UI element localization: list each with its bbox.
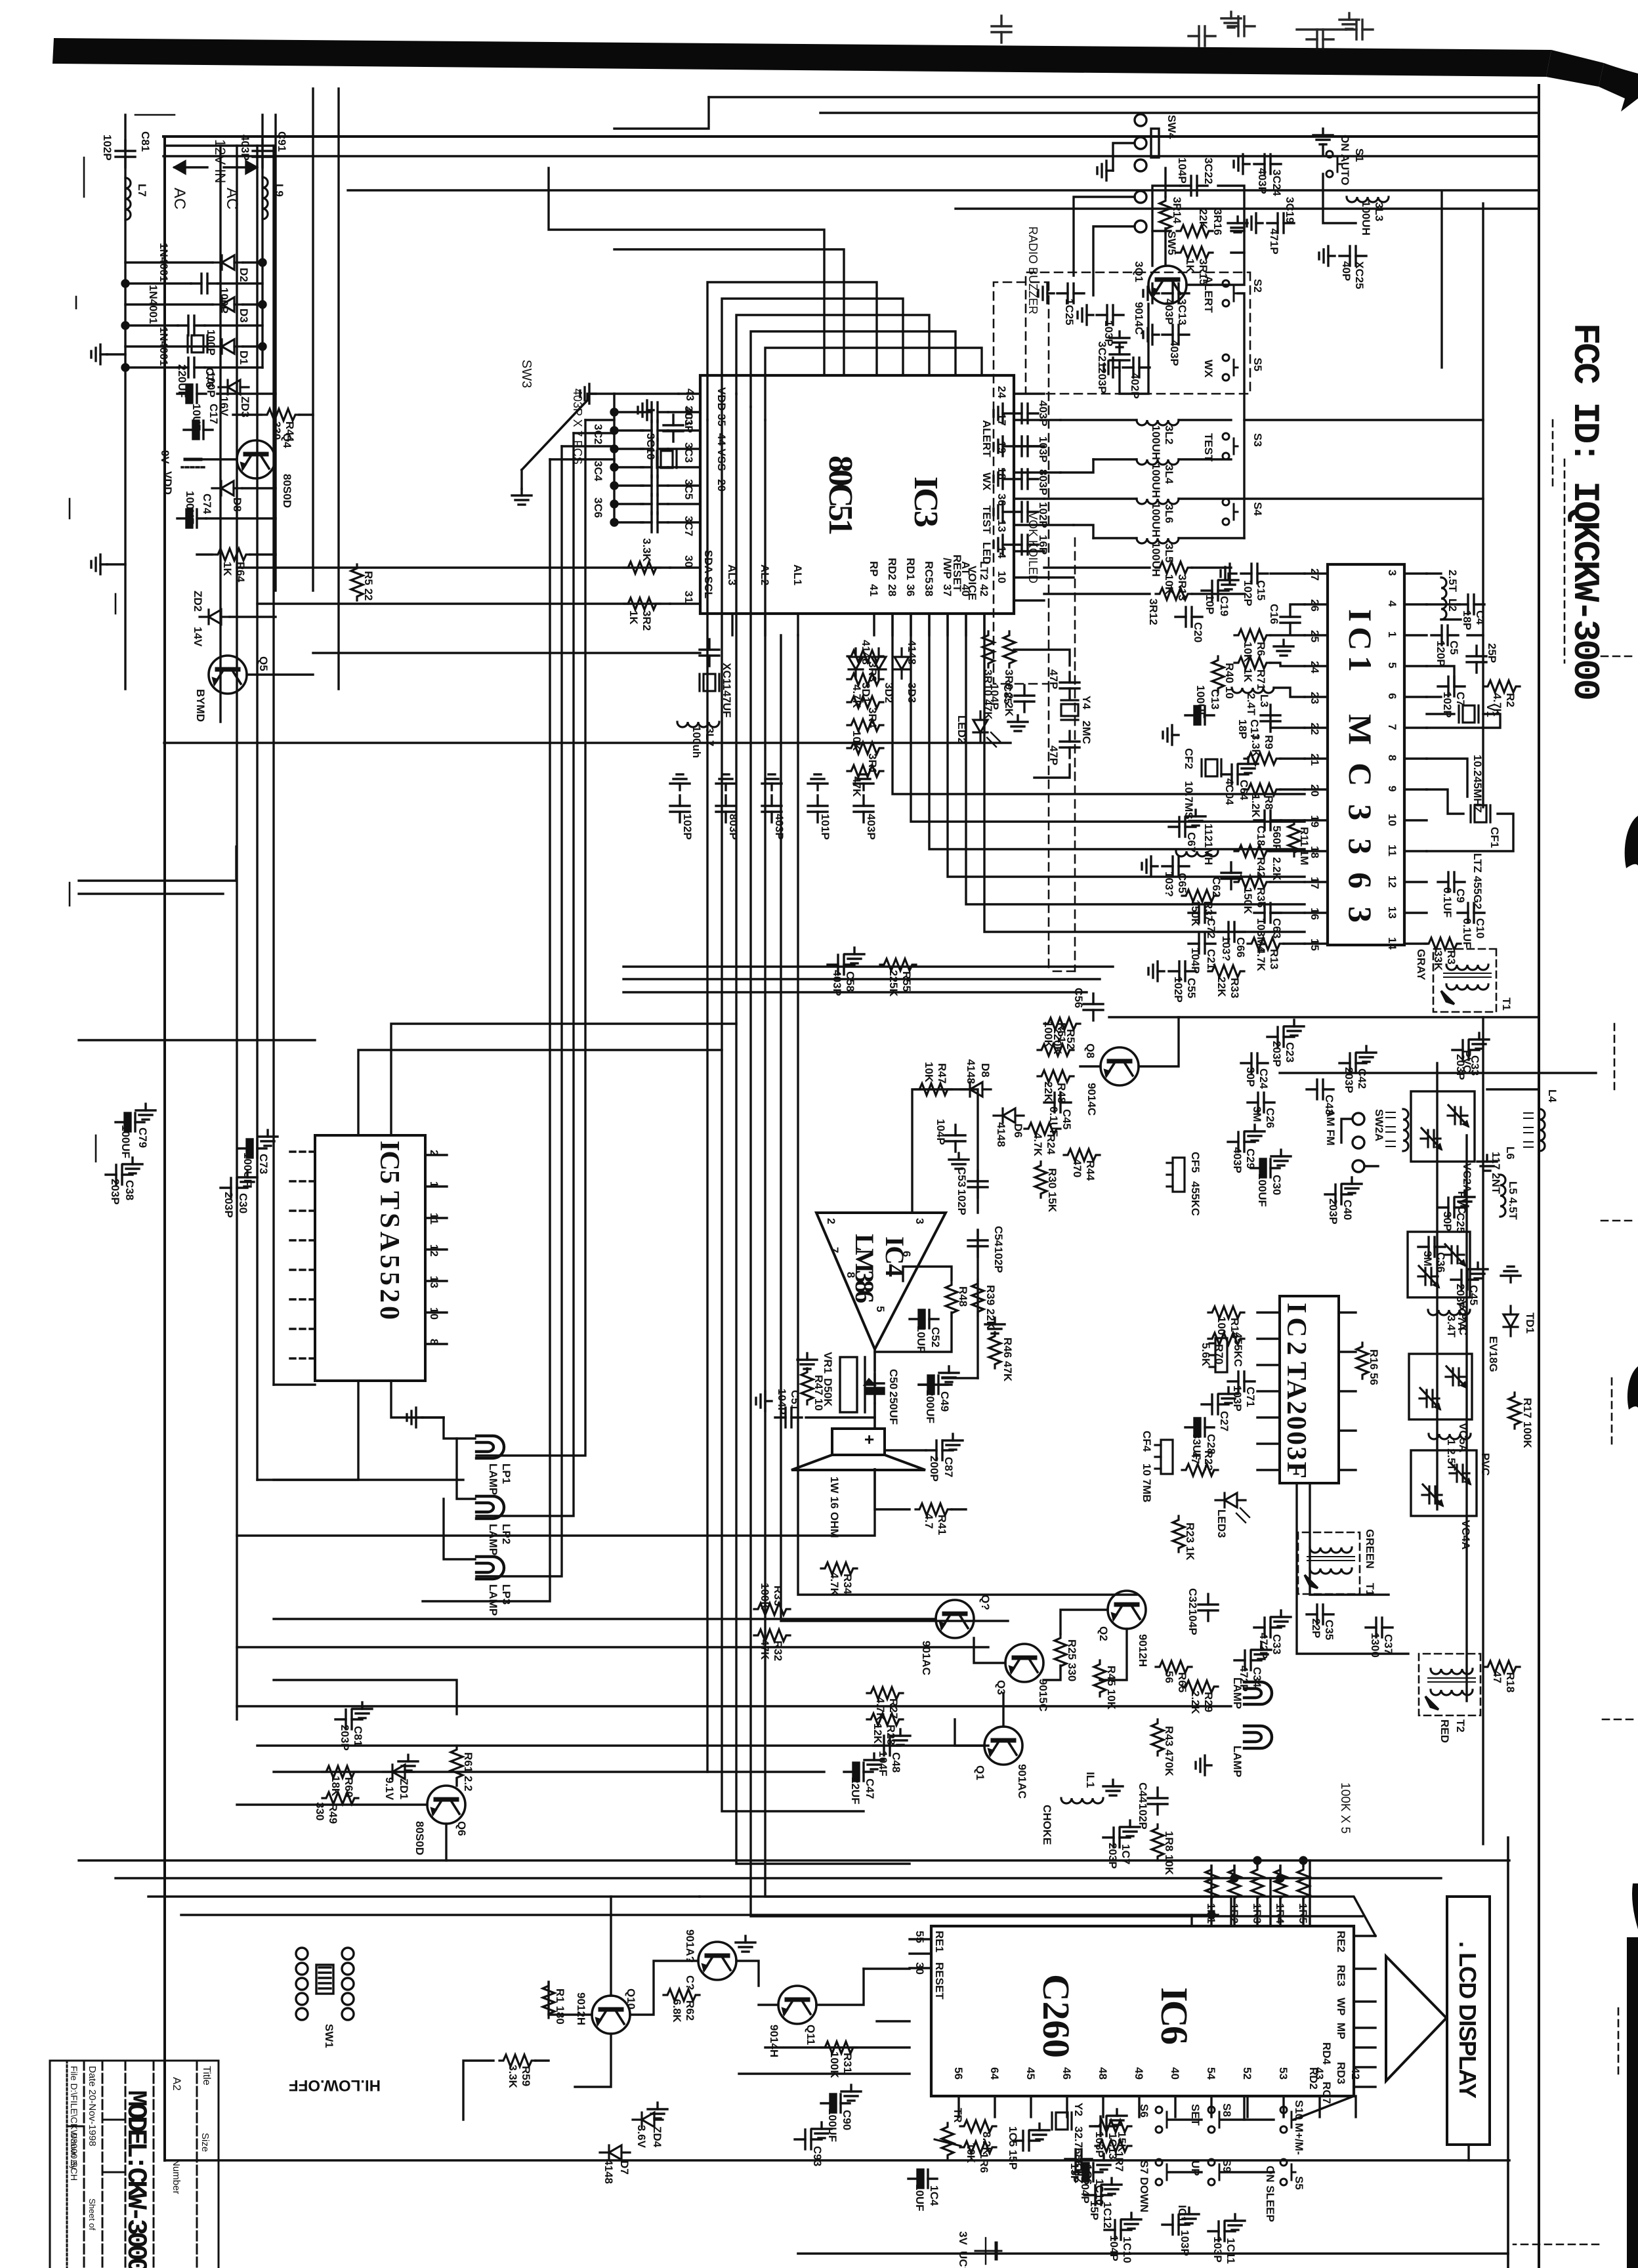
svg-text:104P: 104P [934,1119,947,1145]
svg-text:L3: L3 [1258,694,1270,707]
capacitor 3C26 47P [1060,731,1080,758]
svg-text:MP: MP [1335,2023,1347,2040]
svg-text:403P: 403P [1256,168,1269,194]
svg-text:3C6: 3C6 [592,497,604,518]
svg-text:VC2A: VC2A [1461,1163,1473,1192]
svg-text:11: 11 [1386,845,1398,856]
svg-text:C13: C13 [1209,689,1221,709]
inductor 3L4 100UH [1137,459,1179,465]
diode D8 [212,481,242,495]
electrolytic C30 100UF [1251,1159,1280,1177]
capacitor 3C25 403P [1057,283,1084,303]
lamps LP1 LP2 LP3 [476,1436,504,1458]
capacitor C66 [1218,922,1245,942]
svg-text:100K: 100K [828,2051,841,2078]
svg-text:3: 3 [913,1218,926,1224]
svg-text:100K: 100K [1521,1421,1534,1448]
crystal V1 [1459,705,1479,723]
svg-text:S8: S8 [1221,2103,1233,2117]
resistor 3R9 2.2K [1003,631,1015,667]
capacitor 1C13 103P [1090,2116,1117,2136]
crystal F1 [188,335,207,352]
long vertical mid-left [164,742,1011,744]
resistor R31 100K [821,2042,857,2053]
resistor R42 2.2K [1234,845,1270,857]
svg-text:2.4T: 2.4T [1245,693,1257,716]
op-amp U IC3 80C51 box [700,375,1014,614]
wire bundle middle horizontal 6 [892,614,1305,794]
SDA SCL resistors 3.3K [624,562,660,574]
svg-text:220UF: 220UF [176,364,188,398]
svg-text:LAMP: LAMP [1231,1746,1244,1777]
push buttons S6 DOWN [1156,2107,1171,2133]
resistor 15K [1095,2120,1131,2132]
wire 3r12 to IC3 [1044,566,1150,568]
svg-text:C32: C32 [1186,1588,1199,1608]
capacitor C25 30P gnd [1438,1198,1465,1217]
crystal XC10 below IC3 [657,451,677,468]
electrolytic C28 33UF [1185,1418,1214,1437]
svg-text:Title: Title [201,2066,212,2086]
capacitor XC25 40P [1339,246,1366,266]
frame right horizontal near LCD [1507,1837,1509,2268]
switch lever SW3 [522,400,587,470]
svg-text:LP2: LP2 [500,1524,513,1544]
svg-text:5.6K: 5.6K [1200,1343,1212,1367]
battery 9V VDD [159,450,204,495]
capacitor C67 [1169,817,1196,837]
long bus line A [798,635,1137,1595]
svg-text:BYMD: BYMD [194,689,207,722]
wire IC5 to left [391,1024,736,1135]
svg-text:C62: C62 [1210,877,1223,897]
svg-text:AL1: AL1 [791,564,804,585]
capacitor C81 102P [115,140,135,167]
capacitor 3C24 403P [1254,154,1281,174]
svg-text:19: 19 [1309,815,1321,828]
svg-text:10K: 10K [923,1062,935,1083]
svg-text:S5: S5 [1251,358,1264,371]
resistor R37 150K [1182,890,1218,902]
resistor R34 47K [821,1563,857,1574]
svg-text:C42: C42 [1356,1068,1368,1089]
capacitor C5 120P [1431,625,1458,645]
svg-text:C30: C30 [1270,1175,1283,1195]
svg-text:C260: C260 [1035,1974,1078,2058]
IC1 MC3363 box [1328,564,1404,945]
svg-text:C37: C37 [1382,1634,1395,1654]
svg-text:40: 40 [959,584,972,597]
svg-text:C27: C27 [1218,1411,1230,1431]
svg-text:2: 2 [825,1218,837,1224]
svg-text:8: 8 [845,1272,857,1278]
svg-text:0.1UF: 0.1UF [1441,887,1454,917]
svg-text:4148: 4148 [995,1122,1007,1147]
svg-text:3L3: 3L3 [1373,202,1385,221]
svg-text:GRAY: GRAY [1415,949,1427,980]
capacitor C55 102P [1169,961,1196,981]
svg-text:R46: R46 [1001,1337,1014,1358]
transistor Q7 [936,1600,974,1638]
wire bundle middle horizontal 2 [966,614,1305,904]
svg-text:403P: 403P [682,407,695,433]
svg-text:203P: 203P [1270,1041,1283,1067]
capacitor C27 [1202,1395,1228,1414]
svg-text:403P: 403P [773,814,786,840]
long bus line B [781,635,1008,1621]
svg-text:9015C: 9015C [1037,1679,1049,1711]
dashed enclosure keypad [1026,272,1250,394]
svg-text:Q3: Q3 [995,1680,1007,1695]
svg-text:3C10: 3C10 [644,433,657,460]
svg-text:C81: C81 [139,131,152,152]
svg-text:C81: C81 [352,1726,364,1746]
svg-text:D2: D2 [238,268,250,282]
svg-text:0.1UF: 0.1UF [1461,918,1473,948]
wire IC6 left connections [1309,1860,1311,1926]
crystal CF1 [1471,805,1490,822]
svg-text:C10: C10 [1474,918,1486,938]
svg-text:40: 40 [1169,2067,1181,2080]
capacitor C29 403P [1228,1132,1255,1152]
transistor Q6 [427,1786,465,1824]
svg-text:104P: 104P [1079,2177,1091,2204]
diode D7 4148 [600,2145,630,2160]
IC5 TSA5520 box [315,1135,425,1381]
svg-text:R61 2.2: R61 2.2 [462,1752,474,1792]
svg-text:R55: R55 [900,971,913,992]
LED2 [973,711,988,742]
svg-text:55: 55 [913,1931,926,1943]
svg-text:RESET: RESET [933,1962,946,2000]
diode bridge D1 [213,339,243,354]
svg-text:26: 26 [1309,599,1321,612]
svg-text:C65: C65 [1176,873,1188,893]
capacitor 3C17 [716,795,736,822]
resistor 1R7 [1095,2140,1131,2152]
svg-text:C79: C79 [136,1127,149,1148]
svg-text:3C7: 3C7 [682,516,695,536]
svg-text:3R2: 3R2 [640,610,653,631]
push buttons S8 SET [1208,2107,1223,2133]
svg-text:SW1: SW1 [323,2024,335,2048]
capacitor 3C7 [641,513,668,532]
IC3 right pin stubs [732,614,984,635]
svg-text:C48: C48 [890,1752,902,1773]
lamp LB2 [1244,1726,1272,1748]
resistor R49 330 [322,1792,358,1804]
capacitor C31 203P [335,1710,362,1729]
capacitor 103P pair [1162,2215,1189,2235]
svg-text:Y2: Y2 [1072,2103,1085,2116]
capacitor C54 102P [968,1230,988,1257]
svg-text:100K X 5: 100K X 5 [1338,1782,1352,1834]
svg-text:403P: 403P [865,814,877,840]
resistor R70 5.6K [1208,1333,1244,1345]
svg-text:4.7K: 4.7K [1255,948,1267,972]
wire rail y299 [1440,192,1442,367]
svg-text:56: 56 [952,2067,965,2080]
electrolytic C50 250UF [866,1374,884,1403]
wire LM386 out [873,1349,875,1429]
svg-text:AT: AT [959,561,972,576]
svg-text:R24: R24 [1045,1134,1057,1155]
svg-text:1C11: 1C11 [1225,2238,1237,2264]
svg-text:30: 30 [682,555,695,568]
svg-text:9012H: 9012H [1137,1634,1149,1667]
resistor R33b 100K [754,1603,790,1615]
svg-text:9014H: 9014H [768,2025,780,2057]
svg-text:20: 20 [1309,784,1321,797]
slide switch SW1 [296,1948,354,2048]
transformer T2 RED dashed [1419,1654,1480,1743]
frame bottom border [163,136,166,2160]
svg-text:IC6: IC6 [1153,1987,1196,2045]
svg-text:C9: C9 [1454,889,1467,903]
bus left drops from IC3 left edge [765,348,982,420]
title block bottom-right [50,2061,219,2268]
svg-text:10P: 10P [1204,595,1216,614]
svg-text:14V: 14V [192,627,204,647]
trimmer box VC4A [1411,1450,1492,1549]
svg-text:3C19: 3C19 [1284,197,1296,224]
svg-text:1C10: 1C10 [1121,2236,1133,2263]
capacitor 3C25 47P [1060,672,1080,699]
svg-text:3C24: 3C24 [1270,169,1283,196]
filter CF4 10.7MB [1155,1440,1173,1474]
wire rail A [124,115,126,689]
svg-text:S9: S9 [1221,2159,1233,2173]
svg-text:403P: 403P [831,970,843,996]
svg-text:C40: C40 [1341,1200,1354,1220]
zener ZD1 9.1V [383,1765,413,1779]
svg-text:5: 5 [1386,662,1398,668]
inductor L4 1121MH [1176,851,1218,856]
svg-text:25: 25 [1309,630,1321,642]
svg-text:CHOKE: CHOKE [1041,1805,1053,1845]
capacitor C40 203P [1325,1185,1352,1204]
svg-text:WP: WP [1335,1998,1347,2015]
svg-text:LT2: LT2 [978,561,990,580]
resistor R39 22K [972,1280,984,1316]
push switch S2 ALERT [1223,280,1238,306]
svg-text:15: 15 [1309,938,1321,951]
svg-text:R62: R62 [684,2000,696,2021]
svg-text:C85: C85 [1001,684,1014,704]
svg-text:R33: R33 [1228,978,1241,998]
svg-text:S3: S3 [1251,433,1264,447]
resistor 3R10 47K [982,631,994,667]
svg-text:64: 64 [988,2067,1001,2080]
capacitor 3C22 104P [1181,176,1207,196]
capacitor C38 203P margin [106,1165,133,1185]
capacitor C18 560P [1254,810,1281,830]
svg-text:C23: C23 [1284,1042,1296,1062]
resistor array 1R1-1R5 [1297,1866,1309,1902]
svg-text:103P: 103P [1179,2230,1191,2256]
svg-text:42: 42 [1349,2067,1362,2080]
svg-text:1 2.5T: 1 2.5T [1445,1439,1458,1471]
svg-text:22: 22 [1309,723,1321,735]
electrolytic C13 100UF [1185,706,1214,724]
svg-text:22K: 22K [1197,209,1209,230]
svg-text:1C12: 1C12 [1101,2202,1114,2229]
svg-text:C53: C53 [955,1167,968,1187]
svg-text:C66: C66 [1234,937,1247,957]
svg-text:6: 6 [1386,693,1398,699]
svg-text:S1: S1 [1353,148,1366,162]
svg-text:IC5: IC5 [374,1141,404,1184]
svg-text:4148: 4148 [965,1059,977,1084]
svg-text:C34: C34 [1251,1667,1263,1688]
svg-text:14: 14 [1386,937,1398,950]
svg-text:R29: R29 [1202,1692,1215,1712]
svg-text:24: 24 [1309,661,1321,673]
svg-text:100uh: 100uh [690,726,703,758]
svg-text:13: 13 [1386,906,1398,919]
capacitor 3C2 [641,421,668,440]
svg-text:1K: 1K [1184,259,1196,273]
transistor Q8 [1101,1047,1139,1085]
ground cf2 [1163,725,1179,745]
wire connector to ground [1113,143,1133,171]
svg-text:C29: C29 [1244,1148,1257,1169]
svg-text:C45: C45 [1060,1109,1073,1129]
svg-text:ALERT: ALERT [1202,276,1215,313]
svg-text:402P: 402P [1129,373,1141,399]
svg-text:PVC: PVC [1479,1453,1492,1476]
wire from keypad to left frame [549,168,824,375]
svg-text:C93: C93 [811,2146,824,2166]
svg-text:R59: R59 [520,2066,532,2086]
svg-text:S5: S5 [1293,2176,1305,2190]
svg-text:R32: R32 [772,1641,784,1661]
capacitor C73 100UF on rails [238,1139,266,1158]
svg-text:3M: 3M [1251,1106,1263,1122]
resistor R16 56 [1356,1343,1368,1379]
wires below IC1 left [1270,572,1305,574]
svg-text:9: 9 [1386,786,1398,791]
wire sw5 feed [1093,226,1135,295]
wire IC6 bottom to switch grid [864,1967,910,1969]
svg-text:225K: 225K [887,970,900,997]
wire bundle middle horizontal 4 [929,614,1305,849]
svg-text:RD4: RD4 [1320,2042,1333,2065]
svg-text:100K: 100K [759,1583,771,1610]
svg-text:203P: 203P [339,1725,351,1751]
capacitor C58 403P [828,955,854,975]
svg-text:1R6: 1R6 [978,2152,990,2173]
capacitor C70 [946,1125,965,1152]
svg-text:L7: L7 [136,184,148,197]
svg-text:R34: R34 [841,1574,854,1595]
svg-text:R37: R37 [1202,901,1215,921]
svg-text:C26: C26 [1264,1108,1276,1128]
svg-text:8: 8 [1386,755,1398,761]
wire ic1 pins down [1270,850,1305,852]
rail risers at left [165,144,274,146]
ground lamps [1196,1755,1211,1775]
IC6 right pin stubs [959,2096,1356,2117]
transistor Q1 [984,1727,1022,1765]
svg-text:R41: R41 [936,1515,948,1535]
svg-text:RE2: RE2 [1335,1931,1347,1952]
resistor R1 180 [543,1982,555,2018]
svg-text:4148: 4148 [602,2159,615,2184]
svg-text:R3: R3 [1445,950,1458,965]
bridge wires [243,261,262,263]
capacitor C30b 203P on rails [220,1178,247,1198]
svg-text:T1: T1 [1364,1583,1376,1596]
svg-text:D1: D1 [238,350,250,365]
svg-text:RD3: RD3 [1335,2062,1347,2084]
svg-text:3.3K: 3.3K [507,2065,519,2089]
trimmer box VC2A [1411,1050,1475,1192]
resistor R47 10K + 50K [915,1083,952,1095]
svg-text:RADIO BUZZER: RADIO BUZZER [1026,226,1039,314]
svg-text:C71: C71 [1244,1387,1257,1407]
push buttons S10 M+M- [1280,2107,1295,2133]
svg-text:Size: Size [199,2133,211,2152]
svg-text:R23 1K: R23 1K [1184,1522,1196,1561]
crystal XTAL 3L7 cluster [700,674,719,691]
IC6 bottom pin stubs [910,1939,931,1968]
IC5 top pin stubs [425,1155,447,1344]
top rail wire [1482,203,1484,807]
svg-text:SW4: SW4 [1165,115,1178,139]
resistor R36 [1234,876,1270,888]
svg-text:R42: R42 [1255,857,1267,877]
svg-text:4: 4 [1386,600,1398,607]
svg-text:24: 24 [996,386,1008,398]
svg-text:150K: 150K [1242,887,1254,914]
svg-text:R8: R8 [1263,795,1275,810]
svg-text:1: 1 [428,1181,440,1187]
resistor R51 100K [1038,1044,1074,1056]
svg-text:31: 31 [682,591,695,603]
svg-text:C17: C17 [207,404,220,424]
resistor R64 1K [214,549,250,560]
resistor R13 4.7K [1248,938,1284,950]
wire 3c21 to 3q1 [1120,304,1148,394]
svg-text:Q6: Q6 [455,1821,468,1836]
wire speaker rail down [237,1469,875,1536]
svg-text:1K: 1K [627,610,640,625]
svg-text:100UH: 100UH [1360,201,1372,236]
svg-text:10UF: 10UF [913,2184,926,2212]
resistor R60 [322,1766,358,1778]
wires res array to IC6 [1302,1899,1304,1926]
wire lamp feed C [476,446,562,1576]
svg-text:C15: C15 [1255,580,1267,600]
svg-text:21: 21 [1309,753,1321,766]
svg-text:3C5: 3C5 [682,479,695,499]
svg-text:Q4: Q4 [281,433,293,448]
svg-text:Sheet of: Sheet of [87,2198,97,2231]
svg-text:3C3: 3C3 [682,442,695,463]
svg-text:2: 2 [428,1150,440,1156]
svg-text:102P: 102P [955,1189,968,1215]
capacitor 3C18 [670,795,690,822]
svg-text:203P: 203P [1096,367,1108,394]
svg-text:R31: R31 [841,2053,854,2073]
resistor R23 1K [1173,1516,1185,1552]
wire inner top rail A [348,189,1539,191]
svg-text:10 7MB: 10 7MB [1141,1463,1153,1503]
resistor R55 225K [880,959,916,971]
resistor R17 100K [1509,1393,1521,1429]
wires inductors to IC3 top [1060,419,1137,421]
